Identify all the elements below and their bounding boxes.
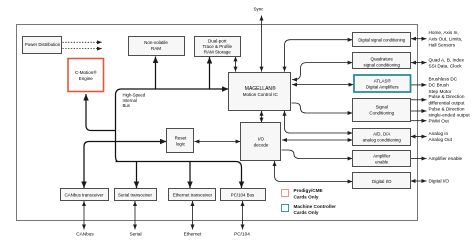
svg-text:C-Motion®: C-Motion® — [75, 69, 97, 75]
svg-text:CANbus: CANbus — [76, 231, 94, 236]
svg-text:Step Motor: Step Motor — [429, 89, 452, 94]
svg-text:Internal: Internal — [123, 98, 137, 103]
svg-text:RAM Storage: RAM Storage — [204, 49, 232, 54]
svg-text:I/O: I/O — [258, 136, 265, 141]
svg-text:Amplifier enable: Amplifier enable — [429, 156, 463, 161]
svg-text:Pulse & Direction: Pulse & Direction — [429, 106, 465, 111]
svg-text:Engine: Engine — [79, 76, 94, 81]
svg-text:Digital Amplifiers: Digital Amplifiers — [366, 85, 400, 90]
svg-text:Machine Controller: Machine Controller — [294, 204, 337, 209]
svg-text:Reset: Reset — [175, 136, 188, 141]
svg-text:Cards Only: Cards Only — [294, 210, 319, 215]
svg-text:Digital I/O: Digital I/O — [429, 179, 450, 184]
svg-text:MAGELLAN®: MAGELLAN® — [245, 85, 276, 92]
svg-text:Quadrature: Quadrature — [371, 57, 394, 62]
svg-text:High-Speed: High-Speed — [123, 93, 146, 98]
svg-text:analog conditioning: analog conditioning — [363, 138, 402, 143]
svg-text:Digital signal conditioning: Digital signal conditioning — [358, 38, 405, 43]
svg-text:A/D, D/A: A/D, D/A — [373, 132, 390, 137]
svg-text:Dual-port: Dual-port — [208, 39, 227, 44]
svg-text:PC/104 Bus: PC/104 Bus — [231, 193, 255, 198]
svg-text:Serial transceiver: Serial transceiver — [118, 193, 152, 198]
svg-text:ATLAS®: ATLAS® — [374, 78, 392, 84]
svg-text:logic: logic — [176, 142, 186, 147]
svg-text:Analog in: Analog in — [429, 131, 449, 136]
svg-text:Non-volatile: Non-volatile — [144, 40, 168, 45]
svg-text:Motion Control IC: Motion Control IC — [243, 92, 279, 97]
svg-text:Serial: Serial — [130, 231, 142, 236]
svg-text:PC/104: PC/104 — [234, 231, 250, 236]
svg-text:Ethernet: Ethernet — [184, 231, 202, 236]
svg-text:Home, Axis In,: Home, Axis In, — [429, 30, 459, 35]
svg-text:SSI Data, Clock: SSI Data, Clock — [429, 64, 463, 69]
svg-text:Bus: Bus — [123, 103, 130, 108]
svg-text:Conditioning: Conditioning — [369, 111, 394, 116]
svg-text:decode: decode — [254, 142, 269, 147]
svg-text:differential output: differential output — [429, 100, 466, 105]
svg-text:PWM Out: PWM Out — [429, 118, 450, 123]
svg-text:Prodigy/CME: Prodigy/CME — [294, 188, 323, 193]
svg-text:Cards Only: Cards Only — [294, 194, 319, 199]
svg-text:enable: enable — [375, 160, 389, 165]
svg-text:CANbus transceiver: CANbus transceiver — [64, 193, 104, 198]
svg-text:Sync: Sync — [254, 7, 265, 12]
svg-text:Power Distribution: Power Distribution — [25, 42, 61, 47]
svg-text:Axis Out, Limits,: Axis Out, Limits, — [429, 36, 463, 41]
svg-text:Amplifier: Amplifier — [373, 154, 391, 159]
svg-text:DC Brush: DC Brush — [429, 83, 450, 88]
svg-text:Hall Sensors: Hall Sensors — [429, 43, 456, 48]
svg-text:Signal: Signal — [376, 105, 388, 110]
svg-text:Analog Out: Analog Out — [429, 137, 453, 142]
svg-text:Brushless DC: Brushless DC — [429, 76, 458, 81]
svg-text:single-ended output: single-ended output — [429, 112, 471, 117]
svg-text:Pulse & Direction: Pulse & Direction — [429, 94, 465, 99]
svg-text:Trace & Profile: Trace & Profile — [202, 44, 232, 49]
svg-text:Ethernet transceiver: Ethernet transceiver — [173, 193, 213, 198]
svg-text:signal conditioning: signal conditioning — [363, 63, 400, 68]
svg-text:Digital I/O: Digital I/O — [372, 179, 392, 184]
svg-text:Quad A, B, Index: Quad A, B, Index — [429, 58, 465, 63]
svg-text:RAM: RAM — [151, 46, 161, 51]
